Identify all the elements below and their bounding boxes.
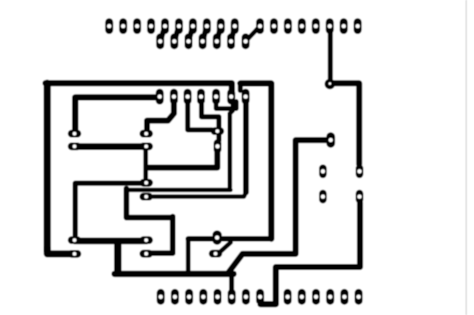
wire link J1 to J2 pin 4 [203,26,207,41]
via V1 [325,79,336,90]
pad U1-1 [156,89,164,105]
pad J1-15 [312,18,320,34]
pad J2-6 [227,33,235,49]
wire left bus bottom elbow to R2-2 [47,248,70,254]
pad J1-12 [270,18,278,34]
pad J4-4 [326,289,334,305]
pad D3-2 [356,190,364,204]
wire R4-1 to R2-1 [75,183,146,235]
pad C2-1 [212,230,221,244]
wire inner bus R1-1 to U1-1 [75,97,160,131]
pad R2-2 [68,250,81,258]
pad D3-1 [356,165,364,179]
pad D1-1 [326,132,335,147]
pad U1-7 [242,89,250,105]
wire link J1 to J2 pin 6 [231,26,235,41]
pad U1-2 [170,89,178,105]
pad J1-13 [284,18,292,34]
wire link J1 to J2 pin 3 [189,26,193,41]
pad R1-1 [68,130,81,138]
pad J1-14 [298,18,306,34]
pad J3-6 [228,289,236,305]
pad J4-5 [340,289,348,305]
wire U1-3 to C1-1 [188,99,212,130]
pad C2-2 [209,250,222,258]
pad R3-1 [140,130,153,138]
pad J2-2 [170,33,178,49]
pad U1-3 [184,89,192,105]
pad J4-1 [284,289,292,305]
wire C2-2 diagonal to node bus [220,242,231,252]
pad J2-4 [199,33,207,49]
wire U1-6 loop around R4-2 to R5-2 [126,101,232,254]
wire R1-2 to R3-2 [75,143,147,150]
wire drop to ground rail [186,239,191,272]
wire link J1 to J2 pin 1 [160,26,165,41]
pad J4-3 [312,289,320,305]
pad R4-1 [140,179,153,187]
pad J1-1 [105,18,113,34]
pad D2-2 [319,190,327,204]
wire R3-2 to R4-1 riser [143,150,148,181]
wire rail riser to J3-6 [229,274,234,291]
pad J1-10 [231,18,239,34]
pad J2-7 [242,33,250,49]
pad J2-5 [213,33,221,49]
pad J3-8 [256,289,264,305]
pad D2-1 [319,165,327,179]
pad R3-2 [140,143,153,151]
wire U1-7 stem to top loop [238,85,243,91]
pad R4-2 [140,193,153,201]
pad J1-16 [326,18,334,34]
pad J3-1 [157,289,165,305]
pad J1-2 [119,18,127,34]
pad J4-6 [355,289,363,305]
pad J1-6 [175,18,183,34]
wire via V1 to D3-1 [331,83,359,164]
pad U1-4 [197,89,205,105]
wire R2-1 to R5-1 [75,238,147,245]
board edge line [466,0,467,315]
wire link J1 to J2 pin 2 [174,26,179,41]
pad U1-6 [227,89,235,105]
pad C1-1 [211,127,224,135]
pad U1-5 [212,89,220,105]
pad J3-7 [242,289,250,305]
pad J1-18 [354,18,362,34]
wire U1-2 to R3-1 [147,99,174,131]
pad R1-2 [68,143,81,151]
pad C1-2 [214,139,222,153]
pad J3-2 [171,289,179,305]
pad J1-9 [217,18,225,34]
wire link J2-7 to J1-11 [246,26,260,41]
wire U1-4 to C1-2 [202,99,219,141]
pad J3-3 [185,289,193,305]
wire U1-5 to U1-6 jog [216,99,236,109]
wire ground rail [115,271,234,277]
wire link J1 to J2 pin 5 [217,26,221,41]
pad J4-2 [298,289,306,305]
wire C1-2 to R3-2 riser [147,150,217,168]
wire node bus horizontal C2-1 row [188,236,271,241]
pad J3-4 [199,289,207,305]
pad J1-8 [203,18,211,34]
pad J1-4 [147,18,155,34]
pad J3-5 [214,289,222,305]
wire J1-16 to via V1 [328,31,333,81]
pad R5-1 [140,236,153,244]
pad R5-2 [140,250,153,258]
wire U1-7 to R4-2 [153,99,246,197]
pad J2-1 [156,33,164,49]
wire D1-1 to ground bus [229,140,327,272]
wire D3-2 to J3-8 [261,203,361,305]
wire top bus horizontal to U1-6 [46,83,232,91]
pad J1-5 [161,18,169,34]
wire top loop over U1 to node bus [240,83,271,238]
pad J1-11 [256,18,264,34]
pad J1-3 [133,18,141,34]
wire ground rail drop from R-bar [114,244,122,271]
pad J1-7 [189,18,197,34]
pad J2-3 [185,33,193,49]
pad J1-17 [340,18,348,34]
pad R2-1 [68,236,81,244]
wire left bus vertical [44,83,51,251]
